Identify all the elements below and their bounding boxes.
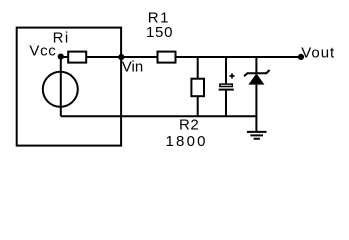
svg-text:Vcc: Vcc — [29, 43, 56, 60]
svg-text:Vin: Vin — [122, 59, 143, 76]
svg-text:150: 150 — [146, 24, 173, 41]
svg-text:Vout: Vout — [301, 45, 335, 62]
svg-text:1800: 1800 — [166, 133, 208, 150]
svg-text:R2: R2 — [179, 117, 199, 134]
